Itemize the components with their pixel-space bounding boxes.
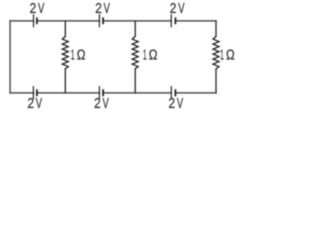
svg-text:1: 1 [143,48,147,64]
svg-text:2: 2 [169,96,176,112]
svg-text:2: 2 [94,96,101,112]
svg-text:1: 1 [71,48,75,64]
svg-text:Ω: Ω [77,48,86,64]
svg-text:V: V [103,96,110,112]
svg-text:V: V [38,1,45,17]
svg-text:2: 2 [30,1,37,17]
svg-text:V: V [36,96,43,112]
svg-text:2: 2 [27,96,34,112]
svg-text:2: 2 [170,1,177,17]
svg-text:V: V [177,96,184,112]
svg-text:2: 2 [95,1,102,17]
svg-text:Ω: Ω [226,48,235,64]
svg-text:V: V [178,1,185,17]
svg-text:Ω: Ω [149,48,158,64]
svg-text:V: V [104,1,111,17]
svg-text:1: 1 [220,48,224,64]
